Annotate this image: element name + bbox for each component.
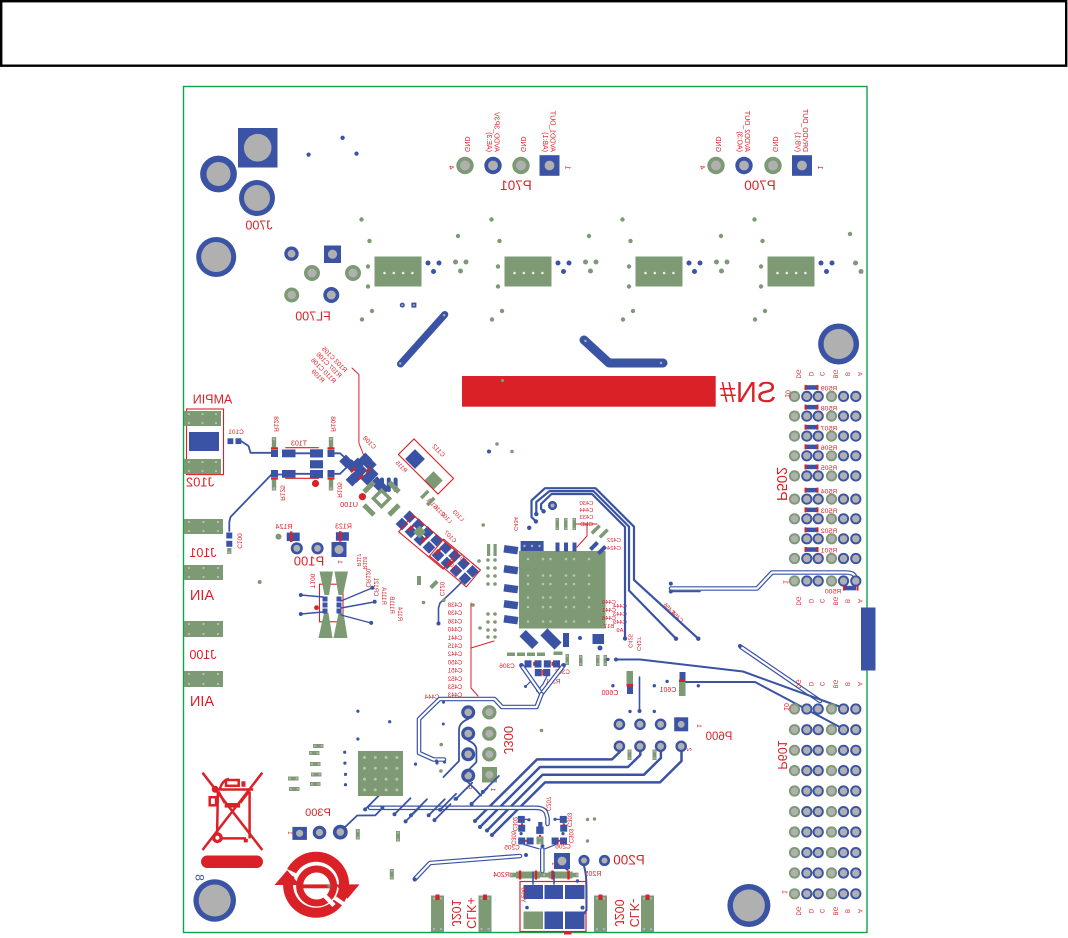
- svg-text:C433: C433: [580, 515, 594, 521]
- svg-text:R508: R508: [821, 405, 837, 412]
- svg-text:B: B: [844, 372, 850, 376]
- svg-text:A: A: [856, 599, 862, 603]
- svg-text:R505: R505: [821, 465, 837, 472]
- svg-text:DG: DG: [795, 679, 801, 688]
- svg-text:BG: BG: [832, 369, 838, 378]
- svg-text:A: A: [856, 682, 862, 686]
- svg-text:DG: DG: [795, 596, 801, 605]
- svg-text:R507: R507: [821, 425, 837, 432]
- svg-text:C425: C425: [627, 634, 633, 648]
- svg-text:C: C: [818, 908, 824, 913]
- svg-text:C436: C436: [447, 619, 462, 625]
- svg-text:A: A: [856, 372, 862, 376]
- svg-text:P100: P100: [294, 554, 324, 569]
- svg-text:R503: R503: [821, 508, 837, 515]
- svg-text:D: D: [807, 598, 813, 603]
- svg-text:P200: P200: [613, 853, 645, 868]
- svg-text:J102: J102: [186, 475, 214, 490]
- svg-text:C: C: [818, 681, 824, 686]
- svg-text:R509: R509: [821, 386, 837, 393]
- svg-text:C303: C303: [566, 812, 572, 827]
- svg-text:J201: J201: [449, 899, 463, 926]
- svg-text:R502: R502: [821, 528, 837, 535]
- svg-text:1: 1: [695, 724, 702, 728]
- svg-text:U100: U100: [340, 500, 358, 509]
- svg-text:J100: J100: [189, 648, 216, 662]
- svg-text:R501: R501: [821, 548, 837, 555]
- svg-text:C450: C450: [447, 660, 462, 666]
- svg-text:BG: BG: [832, 679, 838, 688]
- svg-text:B: B: [844, 599, 850, 603]
- svg-text:C305: C305: [510, 830, 516, 845]
- svg-text:B: B: [844, 682, 850, 686]
- svg-text:C422: C422: [607, 538, 621, 544]
- svg-text:4: 4: [447, 165, 454, 169]
- svg-text:P300: P300: [305, 807, 331, 819]
- svg-text:J300: J300: [501, 726, 516, 754]
- svg-text:R128: R128: [272, 416, 279, 432]
- svg-text:R117: R117: [355, 554, 361, 567]
- svg-text:P701: P701: [500, 178, 532, 193]
- svg-text:C441: C441: [447, 636, 462, 642]
- svg-text:C442: C442: [447, 652, 462, 658]
- svg-text:C306: C306: [499, 663, 515, 670]
- svg-text:CR120: CR120: [364, 568, 370, 587]
- svg-text:1: 1: [782, 580, 789, 584]
- svg-text:P700: P700: [744, 178, 776, 193]
- svg-text:C430: C430: [580, 501, 594, 507]
- svg-text:R124: R124: [276, 524, 293, 531]
- svg-text:GND: GND: [463, 136, 470, 152]
- svg-text:R114: R114: [396, 606, 402, 621]
- svg-text:R111A: R111A: [380, 587, 386, 604]
- svg-text:C101: C101: [228, 429, 244, 436]
- svg-text:C302: C302: [511, 816, 517, 831]
- svg-text:C434: C434: [512, 516, 518, 531]
- svg-text:J200: J200: [612, 899, 626, 926]
- svg-text:R506: R506: [821, 445, 837, 452]
- svg-text:C207: C207: [545, 796, 551, 811]
- svg-text:(AE:3): (AE:3): [485, 132, 492, 152]
- svg-text:R118: R118: [361, 557, 367, 570]
- svg-text:R108: R108: [329, 416, 336, 432]
- svg-text:C206: C206: [555, 844, 571, 851]
- svg-text:B17: B17: [604, 624, 614, 630]
- svg-text:R504: R504: [821, 488, 837, 495]
- svg-text:P600: P600: [706, 731, 733, 743]
- svg-text:DRVDD_DUT: DRVDD_DUT: [801, 108, 808, 152]
- svg-text:AVDD2_DUT: AVDD2_DUT: [743, 110, 750, 152]
- svg-text:FL700: FL700: [295, 310, 330, 324]
- svg-text:CLK-: CLK-: [627, 899, 641, 927]
- svg-text:AMPIN: AMPIN: [193, 393, 233, 407]
- svg-text:(AO:3): (AO:3): [736, 131, 743, 152]
- svg-text:1: 1: [816, 165, 823, 169]
- svg-text:C205: C205: [504, 845, 520, 852]
- svg-text:C120: C120: [438, 581, 444, 596]
- svg-text:SN#: SN#: [720, 377, 776, 409]
- svg-text:2: 2: [685, 747, 692, 751]
- svg-text:C452: C452: [447, 677, 462, 683]
- svg-text:C100: C100: [236, 533, 243, 549]
- svg-text:C427: C427: [635, 637, 641, 651]
- svg-text:R123: R123: [335, 524, 352, 531]
- svg-text:(AB:1): (AB:1): [541, 132, 548, 152]
- svg-text:4: 4: [698, 165, 705, 169]
- svg-text:R125: R125: [279, 485, 286, 501]
- svg-text:C601: C601: [660, 687, 677, 694]
- svg-text:R111B: R111B: [388, 596, 394, 613]
- svg-text:BG: BG: [832, 596, 838, 605]
- svg-text:R205: R205: [585, 871, 602, 878]
- svg-text:10: 10: [782, 703, 789, 711]
- svg-text:GND: GND: [714, 136, 721, 152]
- svg-text:10: 10: [784, 390, 791, 398]
- svg-text:1: 1: [781, 890, 788, 894]
- svg-text:DG: DG: [795, 369, 801, 378]
- svg-text:D: D: [807, 681, 813, 686]
- svg-text:BG: BG: [832, 906, 838, 915]
- svg-text:C453: C453: [447, 685, 462, 691]
- svg-text:DG: DG: [795, 906, 801, 915]
- svg-text:AIN: AIN: [190, 588, 214, 604]
- svg-text:D: D: [807, 908, 813, 913]
- svg-text:P502: P502: [773, 467, 789, 501]
- svg-text:T100: T100: [309, 573, 316, 588]
- svg-text:C439: C439: [447, 611, 462, 617]
- svg-text:R105: R105: [336, 482, 343, 498]
- svg-text:C: C: [818, 598, 824, 603]
- svg-text:T103: T103: [291, 441, 307, 448]
- svg-text:AVDD1_DUT: AVDD1_DUT: [549, 110, 556, 152]
- svg-text:C600: C600: [602, 690, 619, 697]
- svg-text:1: 1: [489, 787, 496, 791]
- svg-text:C451: C451: [447, 669, 462, 675]
- svg-text:A: A: [856, 909, 862, 913]
- svg-text:C415: C415: [447, 644, 462, 650]
- svg-text:Y200: Y200: [520, 887, 527, 903]
- svg-text:1: 1: [564, 165, 571, 169]
- svg-text:C: C: [818, 371, 824, 376]
- svg-text:C440: C440: [447, 628, 462, 634]
- svg-text:CLK+: CLK+: [464, 897, 478, 929]
- svg-text:1: 1: [336, 560, 343, 564]
- svg-text:AIN: AIN: [190, 694, 214, 710]
- svg-text:AVDD_3P3V: AVDD_3P3V: [493, 112, 500, 152]
- svg-text:J101: J101: [189, 546, 216, 560]
- svg-text:A9: A9: [616, 628, 623, 634]
- svg-text:8: 8: [193, 874, 207, 881]
- svg-text:B: B: [844, 909, 850, 913]
- svg-text:GND: GND: [771, 136, 778, 152]
- svg-text:R204: R204: [493, 872, 510, 879]
- svg-text:C444: C444: [579, 508, 594, 514]
- svg-text:C424: C424: [606, 546, 621, 552]
- svg-text:(VB:1): (VB:1): [794, 132, 801, 152]
- svg-text:D: D: [807, 371, 813, 376]
- svg-text:P601: P601: [775, 740, 789, 769]
- svg-text:C438: C438: [447, 603, 462, 609]
- svg-text:R500: R500: [825, 589, 841, 596]
- svg-text:GND: GND: [519, 136, 526, 152]
- svg-text:C303: C303: [567, 828, 573, 843]
- svg-text:J700: J700: [245, 219, 272, 233]
